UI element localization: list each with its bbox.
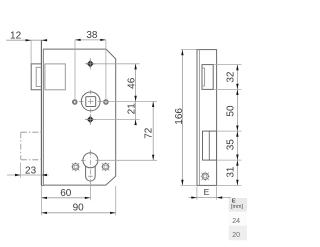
countersunk screw left of cylinder — [72, 164, 78, 170]
faceplate front edge line — [40, 40, 42, 185]
svg-text:24: 24 — [232, 218, 240, 225]
svg-text:31: 31 — [225, 166, 236, 178]
countersunk screw in faceplate — [202, 173, 208, 179]
follower center marks — [90, 90, 92, 94]
cylinder center marks — [89, 150, 91, 184]
dim 166 (faceplate height) — [181, 50, 183, 186]
dim 72 (follower to cylinder) — [152, 101, 154, 160]
dim 32 (latch cutout height) — [236, 65, 238, 90]
dim 31 (cutout to bottom) — [236, 160, 238, 185]
dim 38 (handle screw distance) — [75, 39, 106, 41]
latch bolt bevel step — [36, 67, 41, 86]
svg-text:35: 35 — [225, 139, 236, 151]
svg-text:12: 12 — [10, 30, 22, 41]
latch bolt protruding (front view) — [31, 64, 41, 90]
dim 60 (backset) — [41, 197, 90, 199]
latch cutout in faceplate — [202, 65, 213, 90]
dim 23 (phantom box to faceplate) — [7, 174, 49, 176]
svg-text:32: 32 — [225, 71, 236, 83]
svg-text:23: 23 — [25, 165, 37, 176]
fixing screw hole diamond top — [87, 60, 94, 67]
svg-text:[mm]: [mm] — [231, 204, 243, 210]
svg-text:60: 60 — [60, 188, 72, 199]
svg-text:46: 46 — [126, 77, 137, 89]
profile cylinder hole circle — [83, 153, 98, 168]
handle screw hole right — [104, 100, 109, 105]
latch housing square inside case — [45, 64, 65, 90]
svg-text:90: 90 — [73, 203, 85, 214]
dim 90 (case width) — [41, 212, 115, 214]
bolt cutout in faceplate — [203, 131, 217, 160]
faceplate bend line — [199, 50, 201, 186]
svg-text:72: 72 — [143, 127, 154, 139]
faceplate bottom edge — [41, 185, 43, 187]
profile cylinder slot — [86, 166, 96, 181]
dim 21 (follower to bottom hole) — [135, 101, 137, 124]
fixing screw hole diamond bottom — [87, 116, 94, 123]
dim 35 (bolt cutout height) — [236, 131, 238, 160]
dim 50 (between cutouts) — [236, 89, 238, 131]
svg-text:21: 21 — [126, 103, 137, 115]
svg-text:20: 20 — [232, 232, 240, 239]
svg-text:38: 38 — [86, 30, 98, 41]
handle screw hole left — [73, 100, 78, 105]
faceplate side view outline — [197, 50, 217, 186]
follower square hole — [86, 97, 96, 107]
dim E (faceplate width) — [189, 197, 232, 199]
dim 46 (top hole to follower) — [135, 64, 137, 102]
svg-text:166: 166 — [174, 108, 185, 125]
faceplate back edge line — [42, 49, 44, 185]
follower circle — [81, 92, 100, 111]
svg-text:E: E — [204, 187, 210, 197]
svg-text:50: 50 — [225, 105, 236, 117]
lock case body outline (front view) — [43, 49, 115, 185]
phantom escutcheon box dash-dot — [21, 131, 42, 133]
dim 12 (latch projection) — [6, 39, 47, 41]
E variants table — [229, 198, 247, 211]
